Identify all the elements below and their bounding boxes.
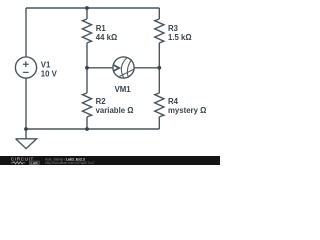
wire right column bottom lead bbox=[158, 117, 160, 129]
node junction mid-right / VM1 bbox=[157, 66, 161, 70]
svg-text:http://circuitlab.com/c67lq8K7: http://circuitlab.com/c67lq8K7cc7 bbox=[45, 161, 95, 165]
label R3 value bbox=[168, 24, 192, 42]
resistor R2 bbox=[82, 93, 91, 117]
resistor R4 bbox=[155, 93, 164, 117]
label R2 value bbox=[96, 97, 134, 115]
svg-text:R3: R3 bbox=[168, 24, 179, 33]
wire left column bottom (V1 to bottom rail) bbox=[25, 78, 27, 129]
voltmeter VM1 bbox=[113, 57, 134, 78]
svg-text:1.5 kΩ: 1.5 kΩ bbox=[168, 33, 192, 42]
svg-text:mystery Ω: mystery Ω bbox=[168, 106, 206, 115]
node junction top rail / R1 bbox=[85, 6, 89, 10]
wire right column mid bbox=[158, 43, 160, 93]
wire middle column top lead bbox=[86, 8, 88, 19]
wire top rail bbox=[26, 7, 159, 9]
svg-text:R1: R1 bbox=[96, 24, 107, 33]
wire left column top (V1 to top rail) bbox=[25, 8, 27, 57]
svg-text:VM1: VM1 bbox=[115, 85, 132, 94]
resistor R1 bbox=[82, 19, 91, 43]
wire middle column mid bbox=[86, 43, 88, 93]
resistor R3 bbox=[155, 19, 164, 43]
svg-text:44 kΩ: 44 kΩ bbox=[96, 33, 117, 42]
label R1 value bbox=[96, 24, 117, 42]
logo resistor zigzag bbox=[11, 162, 25, 164]
svg-text:R4: R4 bbox=[168, 97, 179, 106]
wire bottom rail bbox=[26, 128, 159, 130]
footer bar bbox=[0, 156, 220, 165]
svg-text:10 V: 10 V bbox=[41, 69, 58, 78]
logo LAB bbox=[30, 161, 40, 164]
svg-text:LAB: LAB bbox=[31, 161, 39, 165]
ground bbox=[16, 129, 37, 149]
svg-text:V1: V1 bbox=[41, 60, 51, 69]
wire voltmeter left bbox=[87, 67, 113, 69]
node junction mid-left / VM1 bbox=[85, 66, 89, 70]
wire voltmeter right bbox=[134, 67, 159, 69]
svg-text:variable Ω: variable Ω bbox=[96, 106, 134, 115]
label R4 value bbox=[168, 97, 206, 115]
voltage source V1 bbox=[15, 57, 36, 78]
wire middle column bottom lead bbox=[86, 117, 88, 129]
wire right column top lead bbox=[158, 8, 160, 19]
node junction bottom rail / R2 bbox=[85, 127, 89, 131]
node junction bottom-left / ground bbox=[24, 127, 28, 131]
label V1 value bbox=[41, 60, 58, 78]
svg-text:R2: R2 bbox=[96, 97, 107, 106]
